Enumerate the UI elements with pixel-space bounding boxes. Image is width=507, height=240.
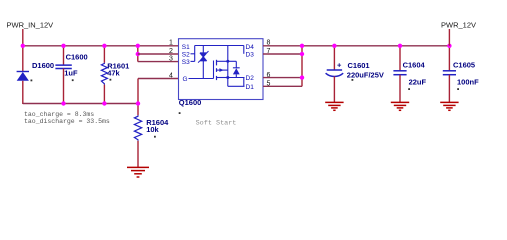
svg-text:D2: D2 <box>246 75 255 82</box>
diode D1600 <box>17 61 55 81</box>
svg-text:C1600: C1600 <box>66 53 88 62</box>
junction R1601 on bottom rail <box>102 101 106 105</box>
wire: PWR_IN_12V vertical drop to top rail and diode <box>22 29 24 71</box>
junction R1601 on top rail <box>102 44 106 48</box>
svg-text:Q1600: Q1600 <box>179 98 202 107</box>
capacitor C1604 <box>393 61 426 90</box>
wire: pin 3 stub <box>138 61 179 63</box>
svg-text:S3: S3 <box>182 59 190 66</box>
wire: R1601 upper lead <box>103 45 105 63</box>
junction C1601 on rail <box>332 44 336 48</box>
transistor (MOSFET) inside Q1600 <box>214 60 228 80</box>
wire: R1604 to ground <box>137 141 139 168</box>
svg-text:G: G <box>183 76 188 83</box>
svg-text:3: 3 <box>169 56 173 63</box>
internal junction lower <box>226 76 229 79</box>
svg-text:22uF: 22uF <box>409 78 427 87</box>
Q1600 marker dot <box>179 112 181 114</box>
junction C1600 on bottom rail <box>61 101 65 105</box>
op-amp Q1600 body box <box>179 39 264 100</box>
svg-text:C1601: C1601 <box>348 61 370 70</box>
Q1600 internal D2-D1 link <box>243 78 245 87</box>
zener (gate protection) inside Q1600 <box>198 46 208 79</box>
wire: pin 7 stub <box>263 53 302 55</box>
Q1600 internal gate row wire <box>189 78 214 80</box>
svg-text:C1605: C1605 <box>453 61 475 70</box>
internal junction upper <box>226 60 229 63</box>
junction pin7/vertical <box>300 52 304 56</box>
svg-text:PWR_IN_12V: PWR_IN_12V <box>7 20 54 29</box>
junction C1600 on top rail <box>61 44 65 48</box>
junction pin2 tee <box>136 52 140 56</box>
Q1600 internal S2 stub <box>191 53 195 55</box>
wire: C1605 lower lead <box>448 75 450 103</box>
Q1600 internal top line <box>195 45 244 47</box>
resistor R1604 <box>134 115 169 141</box>
wire: C1600 upper lead <box>63 45 65 65</box>
wire: pin 2 stub <box>138 53 179 55</box>
svg-text:Soft Start: Soft Start <box>196 119 237 127</box>
svg-text:100nF: 100nF <box>457 78 479 87</box>
Q1600 internal D1 row <box>228 85 245 87</box>
capacitor C1601 (polarized) <box>326 60 384 81</box>
svg-text:47k: 47k <box>107 69 120 78</box>
Q1600 internal drain bus <box>227 46 229 87</box>
Q1600 internal source bus <box>194 46 196 62</box>
ground below R1604 <box>127 167 149 177</box>
capacitor C1600 <box>55 53 87 82</box>
resistor R1601 <box>101 61 129 84</box>
svg-text:+: + <box>337 60 342 69</box>
junction C1605 / PWR_12V on rail <box>447 44 451 48</box>
svg-text:1: 1 <box>169 40 173 47</box>
svg-text:10k: 10k <box>146 125 159 134</box>
svg-text:S2: S2 <box>182 51 190 58</box>
ground below C1605 <box>440 102 458 110</box>
wire: C1600 lower lead <box>63 69 65 104</box>
wire: left top rail <box>23 45 179 47</box>
svg-text:220uF/25V: 220uF/25V <box>347 71 384 80</box>
wire: C1604 lower lead <box>399 75 401 103</box>
wire: output pins tie vertical <box>301 45 303 86</box>
wire: bottom rail <box>23 103 138 105</box>
wire: pin 5 stub <box>263 85 302 87</box>
wire: C1601 upper lead <box>333 45 335 70</box>
wire: C1605 upper lead <box>448 45 450 71</box>
junction at PWR_IN drop on rail <box>21 44 25 48</box>
svg-text:PWR_12V: PWR_12V <box>441 21 476 30</box>
wire: PWR_12V drop <box>448 29 450 46</box>
svg-text:tao_charge = 8.3ms: tao_charge = 8.3ms <box>24 111 94 118</box>
wire: pin 6 stub <box>263 77 302 79</box>
junction gate node on bottom rail <box>136 101 140 105</box>
wire: pin 4 vertical down to R1604 <box>137 79 139 116</box>
wire: R1601 lower lead <box>103 85 105 104</box>
wire: pin 4 horizontal <box>138 78 179 80</box>
svg-text:4: 4 <box>169 73 173 80</box>
junction pin8/vertical <box>300 44 304 48</box>
wire: below D1600 <box>22 81 24 104</box>
svg-text:2: 2 <box>169 48 173 55</box>
svg-text:D4: D4 <box>246 44 255 51</box>
svg-text:D3: D3 <box>246 51 255 58</box>
svg-text:S1: S1 <box>182 44 190 51</box>
junction pins-2-3 vertical on rail <box>136 44 140 48</box>
svg-text:D1600: D1600 <box>32 61 54 70</box>
junction pin6/vertical <box>300 75 304 79</box>
wire: pin 8 to output rail <box>263 45 449 47</box>
svg-text:C1604: C1604 <box>403 61 426 70</box>
Q1600 internal D4-D3 link <box>243 46 245 54</box>
junction C1604 on rail <box>398 44 402 48</box>
wire: C1604 upper lead <box>399 45 401 71</box>
svg-text:tao_discharge = 33.5ms: tao_discharge = 33.5ms <box>24 118 110 125</box>
ground below C1601 <box>325 102 343 110</box>
wire: C1601 lower lead <box>333 76 335 102</box>
ground below C1604 <box>391 102 409 110</box>
Q1600 internal S3 stub <box>191 60 195 62</box>
body diode inside Q1600 <box>228 61 240 77</box>
capacitor C1605 <box>443 61 479 90</box>
wire: vertical feeding pins 2,3 <box>137 45 139 61</box>
Q1600 internal D2 row <box>228 77 245 79</box>
svg-text:D1: D1 <box>246 84 255 91</box>
svg-text:1uF: 1uF <box>64 69 78 78</box>
